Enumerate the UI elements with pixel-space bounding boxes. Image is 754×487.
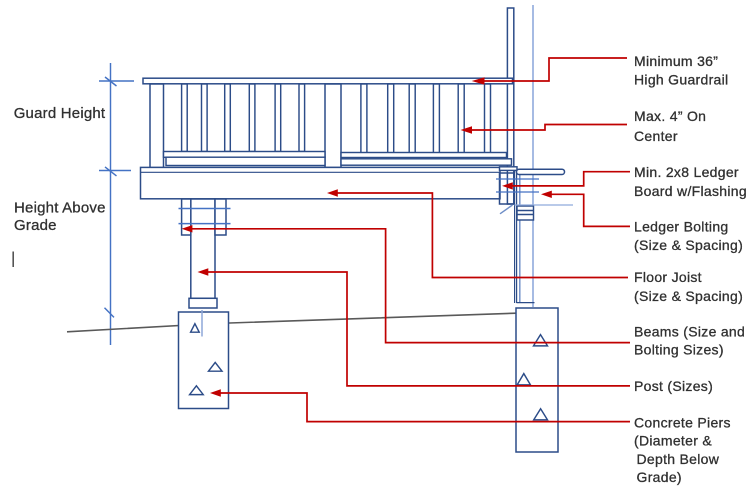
- beam bolt upper: [179, 208, 231, 210]
- svg-text:Grade): Grade): [637, 469, 682, 485]
- svg-text:Beams (Size and: Beams (Size and: [634, 323, 745, 339]
- leader: Beams: [190, 229, 630, 343]
- text cursor mark: [12, 252, 14, 268]
- ledger bolt lower: [496, 191, 539, 193]
- balusters left section: [182, 84, 305, 152]
- band-to-wall bridge bar: [500, 167, 518, 171]
- sill detail below ledger: [517, 206, 534, 220]
- left concrete pier: [179, 312, 229, 409]
- support post: [191, 199, 215, 298]
- flashing bar right of wall: [517, 169, 565, 174]
- deck band / rim joist: [141, 167, 501, 198]
- beam side bar left: [182, 199, 191, 235]
- right pier triangle 3: [534, 409, 548, 420]
- right concrete pier: [516, 308, 558, 452]
- dimension tick middle (deck surface): [99, 170, 131, 172]
- wall channel line C: [519, 175, 521, 303]
- leader: Max 4 On Center: [469, 125, 627, 131]
- light line at sill: [515, 204, 574, 206]
- dimension line vertical: [99, 63, 134, 345]
- leader: Concrete Piers: [218, 393, 630, 422]
- wall channel line B: [516, 168, 518, 304]
- guardrail post left: [150, 84, 164, 168]
- guardrail top rail: [143, 78, 513, 84]
- svg-text:Minimum 36”: Minimum 36”: [634, 53, 718, 69]
- fascia board left: [166, 157, 325, 165]
- svg-text:Post (Sizes): Post (Sizes): [634, 378, 713, 394]
- left pier triangle 3: [190, 386, 204, 395]
- wall sheathing light line: [532, 5, 534, 307]
- leader: Minimum 36 High Guardrail: [481, 58, 627, 81]
- balusters right section: [361, 84, 491, 153]
- right pier triangle 2: [517, 374, 530, 385]
- left pier triangle 1: [191, 324, 200, 333]
- svg-text:Guard Height: Guard Height: [14, 105, 106, 122]
- dimension tick top (top of guardrail): [99, 80, 134, 82]
- svg-text:Height Above: Height Above: [14, 200, 106, 217]
- svg-text:(Size & Spacing): (Size & Spacing): [634, 237, 743, 253]
- leader: Post: [206, 272, 630, 386]
- leader: Min 2x8 Ledger Board: [510, 172, 630, 186]
- ledger bolt upper: [496, 178, 539, 180]
- svg-text:Ledger Bolting: Ledger Bolting: [634, 219, 729, 235]
- svg-text:High Guardrail: High Guardrail: [634, 72, 728, 88]
- svg-text:Floor Joist: Floor Joist: [634, 269, 702, 285]
- svg-text:(Diameter &: (Diameter &: [634, 433, 712, 449]
- svg-text:Concrete Piers: Concrete Piers: [634, 415, 731, 431]
- grade line: [67, 313, 516, 332]
- guardrail post middle: [325, 84, 341, 168]
- dimension tick bottom (grade): [105, 308, 115, 318]
- leader: Floor Joist: [335, 193, 628, 278]
- deck board line: [141, 171, 501, 173]
- leader: Ledger Bolting: [549, 194, 630, 226]
- wall channel line A: [514, 168, 516, 304]
- beam side bar right: [215, 199, 226, 235]
- svg-text:Board w/Flashing: Board w/Flashing: [634, 183, 747, 199]
- pier center mark: [201, 310, 203, 337]
- diagonal cut slash: [500, 205, 513, 214]
- svg-text:Center: Center: [634, 128, 678, 144]
- svg-text:Min. 2x8 Ledger: Min. 2x8 Ledger: [634, 164, 739, 180]
- svg-text:(Size & Spacing): (Size & Spacing): [634, 288, 743, 304]
- svg-text:Max. 4” On: Max. 4” On: [634, 108, 706, 124]
- fascia board right: [341, 159, 512, 165]
- svg-text:Bolting Sizes): Bolting Sizes): [634, 342, 724, 358]
- svg-text:Grade: Grade: [14, 217, 57, 234]
- post base plate: [189, 298, 217, 308]
- svg-text:Depth Below: Depth Below: [637, 451, 720, 467]
- left pier triangle 2: [209, 362, 223, 371]
- wall post (house wall): [507, 5, 534, 307]
- bottom rail left: [164, 152, 326, 158]
- wall channel bottom: [517, 302, 535, 304]
- right pier triangle 1: [534, 335, 548, 346]
- ledger board: [500, 173, 515, 204]
- beam bolt lower: [179, 223, 231, 225]
- bottom rail right: [341, 153, 507, 158]
